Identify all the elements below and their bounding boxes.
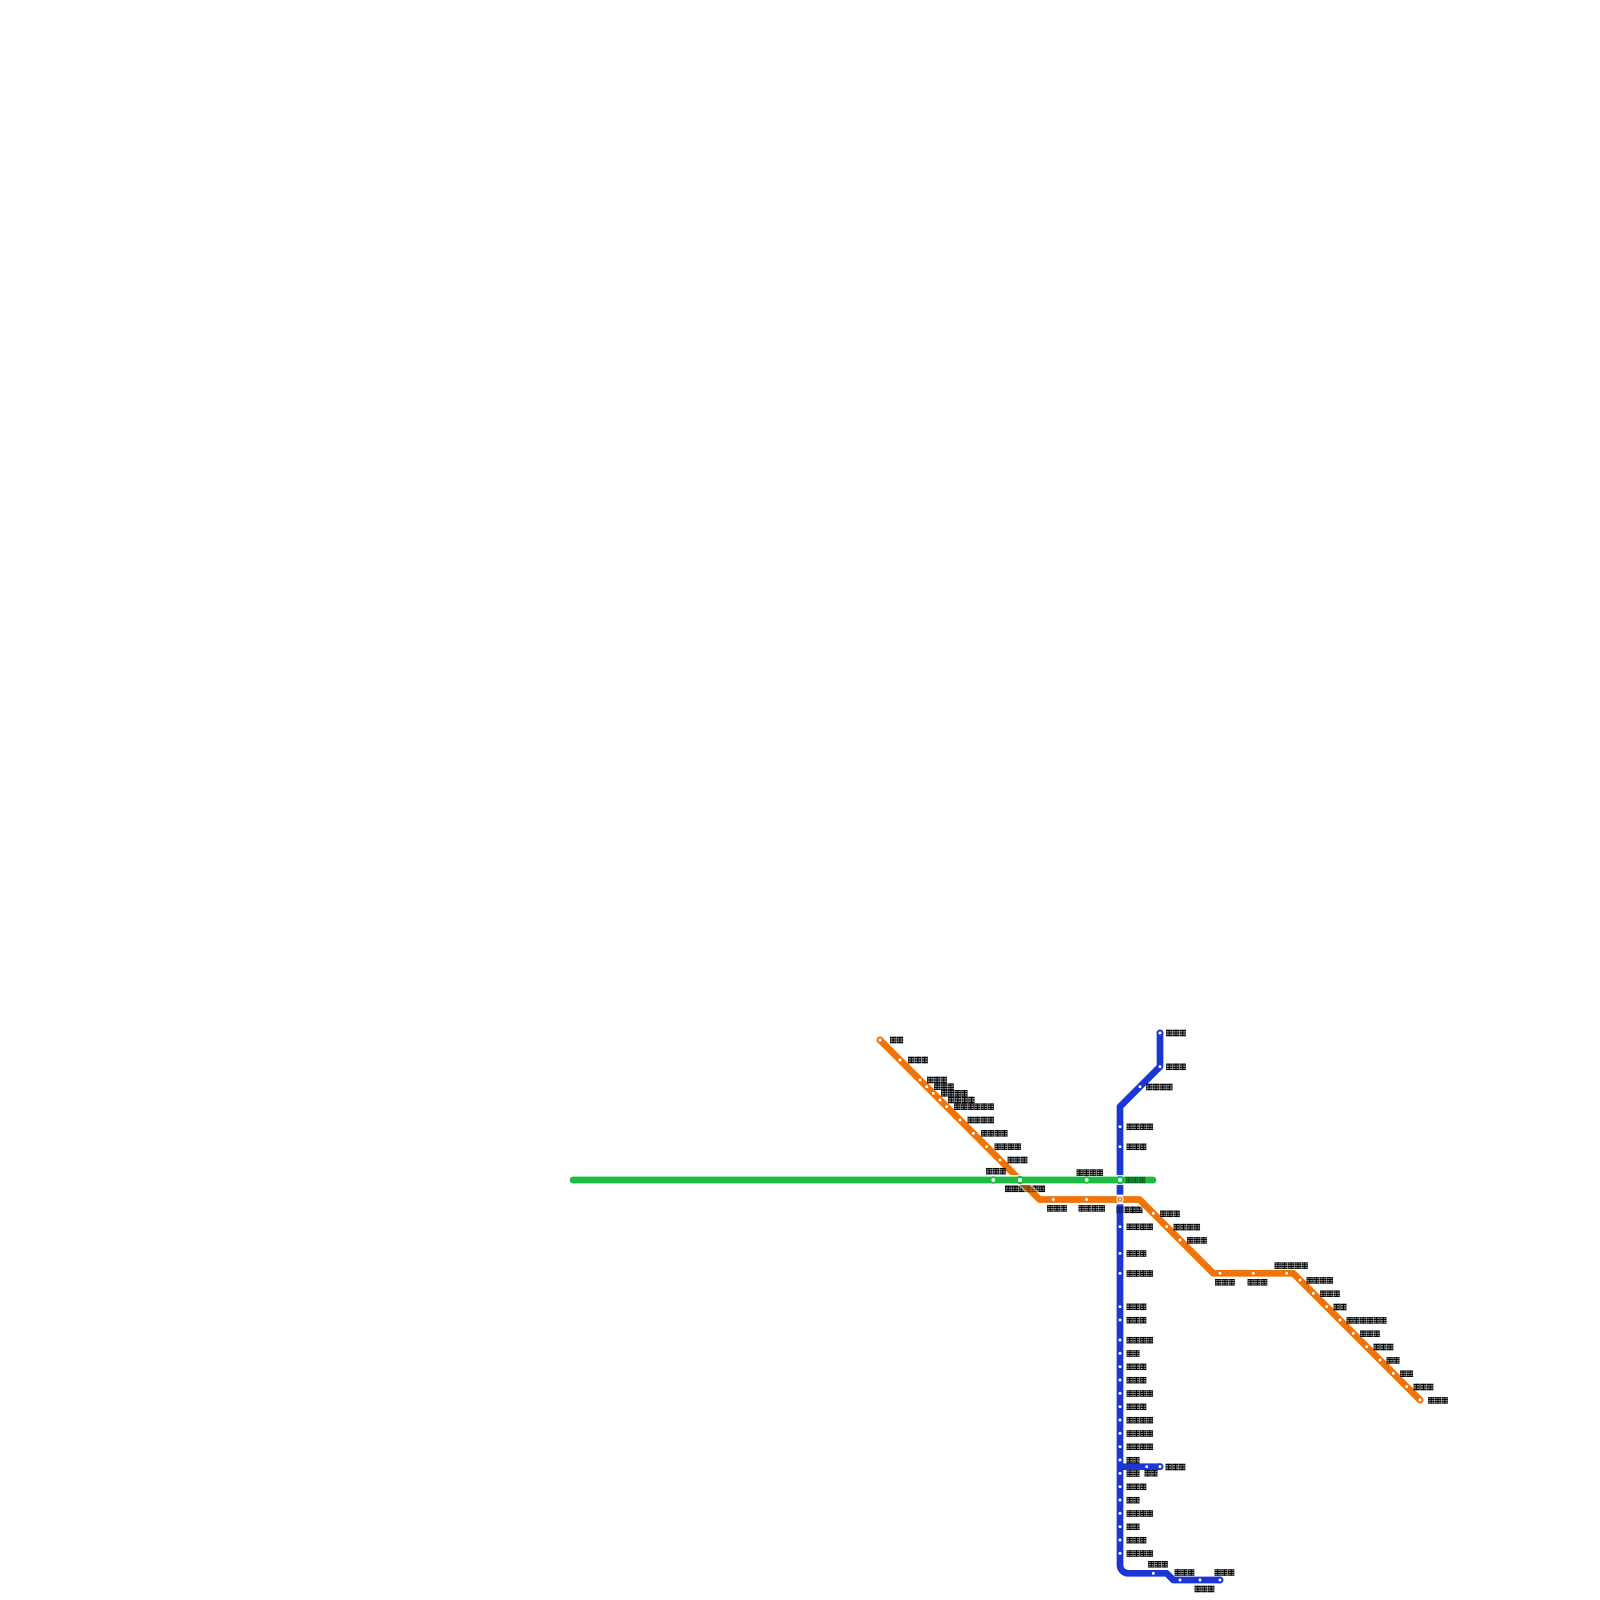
station Tianfu Square transfer [1118,1198,1122,1202]
label: Jinzhoulu [934,1083,954,1090]
label: Provincial Gymnasium [1127,1270,1154,1277]
label: Yipintianxia [981,1130,1008,1137]
station Longquanyi terminus [1418,1398,1423,1403]
label: Shijicheng [1127,1404,1147,1411]
label: branch Guangfu (below) [1145,1470,1158,1477]
label: Shuhanludong [995,1143,1022,1150]
station Shufang [1391,1371,1396,1376]
label: Dongdalu [1248,1279,1268,1286]
label: Niuwangmiao [1187,1237,1207,1244]
label: Huaxiba [1127,1250,1147,1257]
label: Jinjiang Hotel [1127,1224,1154,1231]
station Nijiaqiao [1118,1304,1123,1309]
station Yipintianxia [971,1131,976,1136]
station Zhongyida transfer [1017,1177,1023,1183]
station Shuhanludong [984,1144,989,1149]
label: Renmingongyuan [1079,1205,1106,1212]
station Huayang [1118,1471,1123,1476]
label: Wuhanlu [1127,1537,1147,1544]
label: Tianfu Square (under copy) [1116,1207,1143,1214]
station Jinjiang Hotel [1118,1224,1123,1229]
label: Jiepai [1387,1357,1400,1364]
station Xinglonghu [1198,1578,1203,1583]
station Shijicheng [1118,1404,1123,1409]
label: Jinkebeilu [941,1090,968,1097]
label: Tianhelu [908,1057,928,1064]
label: Wugensong [1166,1464,1186,1471]
station Renmingongyuan [1084,1197,1089,1202]
station Luomashi transfer [1117,1177,1123,1183]
station Wugensong terminus [1158,1464,1163,1469]
station Jiepai [1378,1358,1383,1363]
station Damianpu [1351,1331,1356,1336]
label: Shufang [1400,1370,1413,1377]
station branch station Guangfu [1144,1464,1149,1469]
label: Jinchengguangchang [1127,1390,1154,1397]
metro line 1 branch white casing [1120,1462,1160,1472]
station Renminbeilu [1118,1124,1123,1129]
station Kuanzhaixiangzi [1084,1177,1090,1183]
station Huiwangling [1311,1291,1316,1296]
station Fuhuayuan [1118,1378,1123,1383]
label: Xipu [890,1037,903,1044]
station Yingbindadao [938,1098,943,1103]
station Xibocheng [1151,1571,1156,1576]
station Guangzhoulu [1178,1578,1183,1583]
label: Tianfu 3rd Street [1127,1417,1154,1424]
label: Lianshanpo [1374,1344,1394,1351]
label: Huafudadao [1127,1444,1154,1451]
label: Kuanzhaixiangzi (above line) [1077,1169,1104,1176]
label: Xibocheng (above) [1148,1561,1168,1568]
station Hongshi Park [1118,1511,1123,1516]
station Tianfu Park [1118,1551,1123,1556]
station Tongzilin [1118,1318,1123,1323]
station Wenshuyuan [1118,1144,1123,1149]
station Wenhuagong [991,1177,997,1183]
station Jinkebeilu [931,1091,936,1096]
station Honghe [1324,1304,1329,1309]
metro line 1 (blue) white casing [1120,1033,1220,1580]
label: Renminbeilu [1127,1124,1154,1131]
label: Longpinglu [1414,1384,1434,1391]
station South Railway Station [1118,1338,1123,1343]
station Jinzhoulu [924,1084,929,1089]
station Baicaolu [918,1078,923,1083]
label: Huayang [1127,1470,1140,1477]
station Tianfu 5th Street [1118,1431,1123,1436]
label: Luhu [1127,1524,1140,1531]
station Tonghuimen [1051,1197,1056,1202]
station Xipu terminus [878,1038,883,1043]
label: Huiwangling [1320,1290,1340,1297]
label: Luomashi (dark, on green line) [1126,1177,1146,1184]
label: Hongshi Park [1127,1510,1154,1517]
label: Chengdu Administration Institute [1347,1317,1387,1324]
label over-copy: Tianfu Square (half-tone over blue line) [1116,1207,1143,1214]
label: Tongzilin [1127,1317,1147,1324]
station Chengdu Administration Institute [1338,1318,1343,1323]
label: Nijiaqiao [1127,1304,1147,1311]
label: Guangzhoulu (above) [1175,1569,1195,1576]
station Jinchengguangchang [1118,1391,1123,1396]
station Yangxilijiao [958,1118,963,1123]
station Dongdalu [1251,1271,1256,1276]
label: Guangfu [1127,1497,1140,1504]
label: Tianfu Park [1127,1550,1154,1557]
metro line 4 (green) white casing [573,1175,1153,1185]
label: Xinglonghu (below) [1195,1586,1215,1593]
station Baiguolin [998,1158,1003,1163]
label over-copy: Zhongyida (half-tone over orange line) [1005,1186,1045,1193]
label: Longquanyi [1428,1397,1448,1404]
station Huafudadao [1118,1444,1123,1449]
label: Baiguolin [1008,1157,1028,1164]
label: Yangxilijiao [968,1117,995,1124]
station Chadianzi Bus Terminal [944,1104,949,1109]
label: Tazishan Park [1275,1262,1308,1269]
label: Yingbindadao [948,1097,975,1104]
label: Tonghuimen [1047,1205,1067,1212]
station Longpinglu [1404,1384,1409,1389]
label: Gaoxin [1127,1350,1140,1357]
station Huaxiba [1118,1251,1123,1256]
label: Damianpu [1360,1330,1380,1337]
station Weijianian terminus [1158,1031,1163,1036]
station Shengxianhu [1158,1064,1163,1069]
label: Weijianian [1166,1030,1186,1037]
station Tazishan Park [1284,1271,1289,1276]
transfer station white halo: Tianfu Square [1116,1196,1123,1203]
label: Wenshuyuan [1127,1144,1147,1151]
label: North Railway Station [1146,1084,1173,1091]
label: Wenhuagong (above line) [986,1168,1006,1175]
metro line 4 (green) [573,1177,1153,1184]
label: Haichanglu [1127,1484,1147,1491]
label: Fuhuayuan [1127,1377,1147,1384]
label: Chunxilu [1160,1211,1180,1218]
label: Zhongyida-Shengyiyuan (under copy) [1005,1186,1045,1193]
station Luhu [1118,1524,1123,1529]
metro line 1 (blue) branch to Wugensong [1120,1463,1160,1470]
station Haichanglu [1118,1484,1123,1489]
station Provincial Gymnasium [1118,1271,1123,1276]
label: Shengxianhu [1166,1064,1186,1071]
label: Honghe [1334,1304,1347,1311]
station Lianshanpo [1364,1344,1369,1349]
station Sihe [1118,1458,1123,1463]
label: Baicaolu [927,1077,947,1084]
label: Jinrongcheng [1127,1364,1147,1371]
station Chunxilu [1151,1211,1156,1216]
station Chengyulijiao [1298,1278,1303,1283]
station Guangfu [1118,1498,1123,1503]
label: Kexuecheng (above) [1215,1569,1235,1576]
label: Tianfu 5th Street [1127,1430,1154,1437]
label: South Railway Station [1127,1337,1154,1344]
station Wuhanlu [1118,1538,1123,1543]
station Jinrongcheng [1118,1364,1123,1369]
label: Niushikou [1215,1279,1235,1286]
label: Chengyulijiao [1307,1277,1334,1284]
metro line 2 (orange) white casing [880,1040,1420,1400]
label: Dongmendaqiao [1174,1224,1201,1231]
station Gaoxin [1118,1351,1123,1356]
station Kexuecheng terminus [1218,1578,1223,1583]
station Tianhelu [898,1058,903,1063]
station Dongmendaqiao [1164,1224,1169,1229]
metro line 1 (blue) main trunk [1120,1033,1220,1580]
station Niuwangmiao [1178,1238,1183,1243]
station North Railway Station [1138,1084,1143,1089]
metro line 2 (orange) [880,1040,1420,1400]
station Niushikou [1218,1271,1223,1276]
label: Sihe [1127,1457,1140,1464]
label: Chadianzi Bus Terminal [954,1103,994,1110]
station Tianfu 3rd Street [1118,1418,1123,1423]
